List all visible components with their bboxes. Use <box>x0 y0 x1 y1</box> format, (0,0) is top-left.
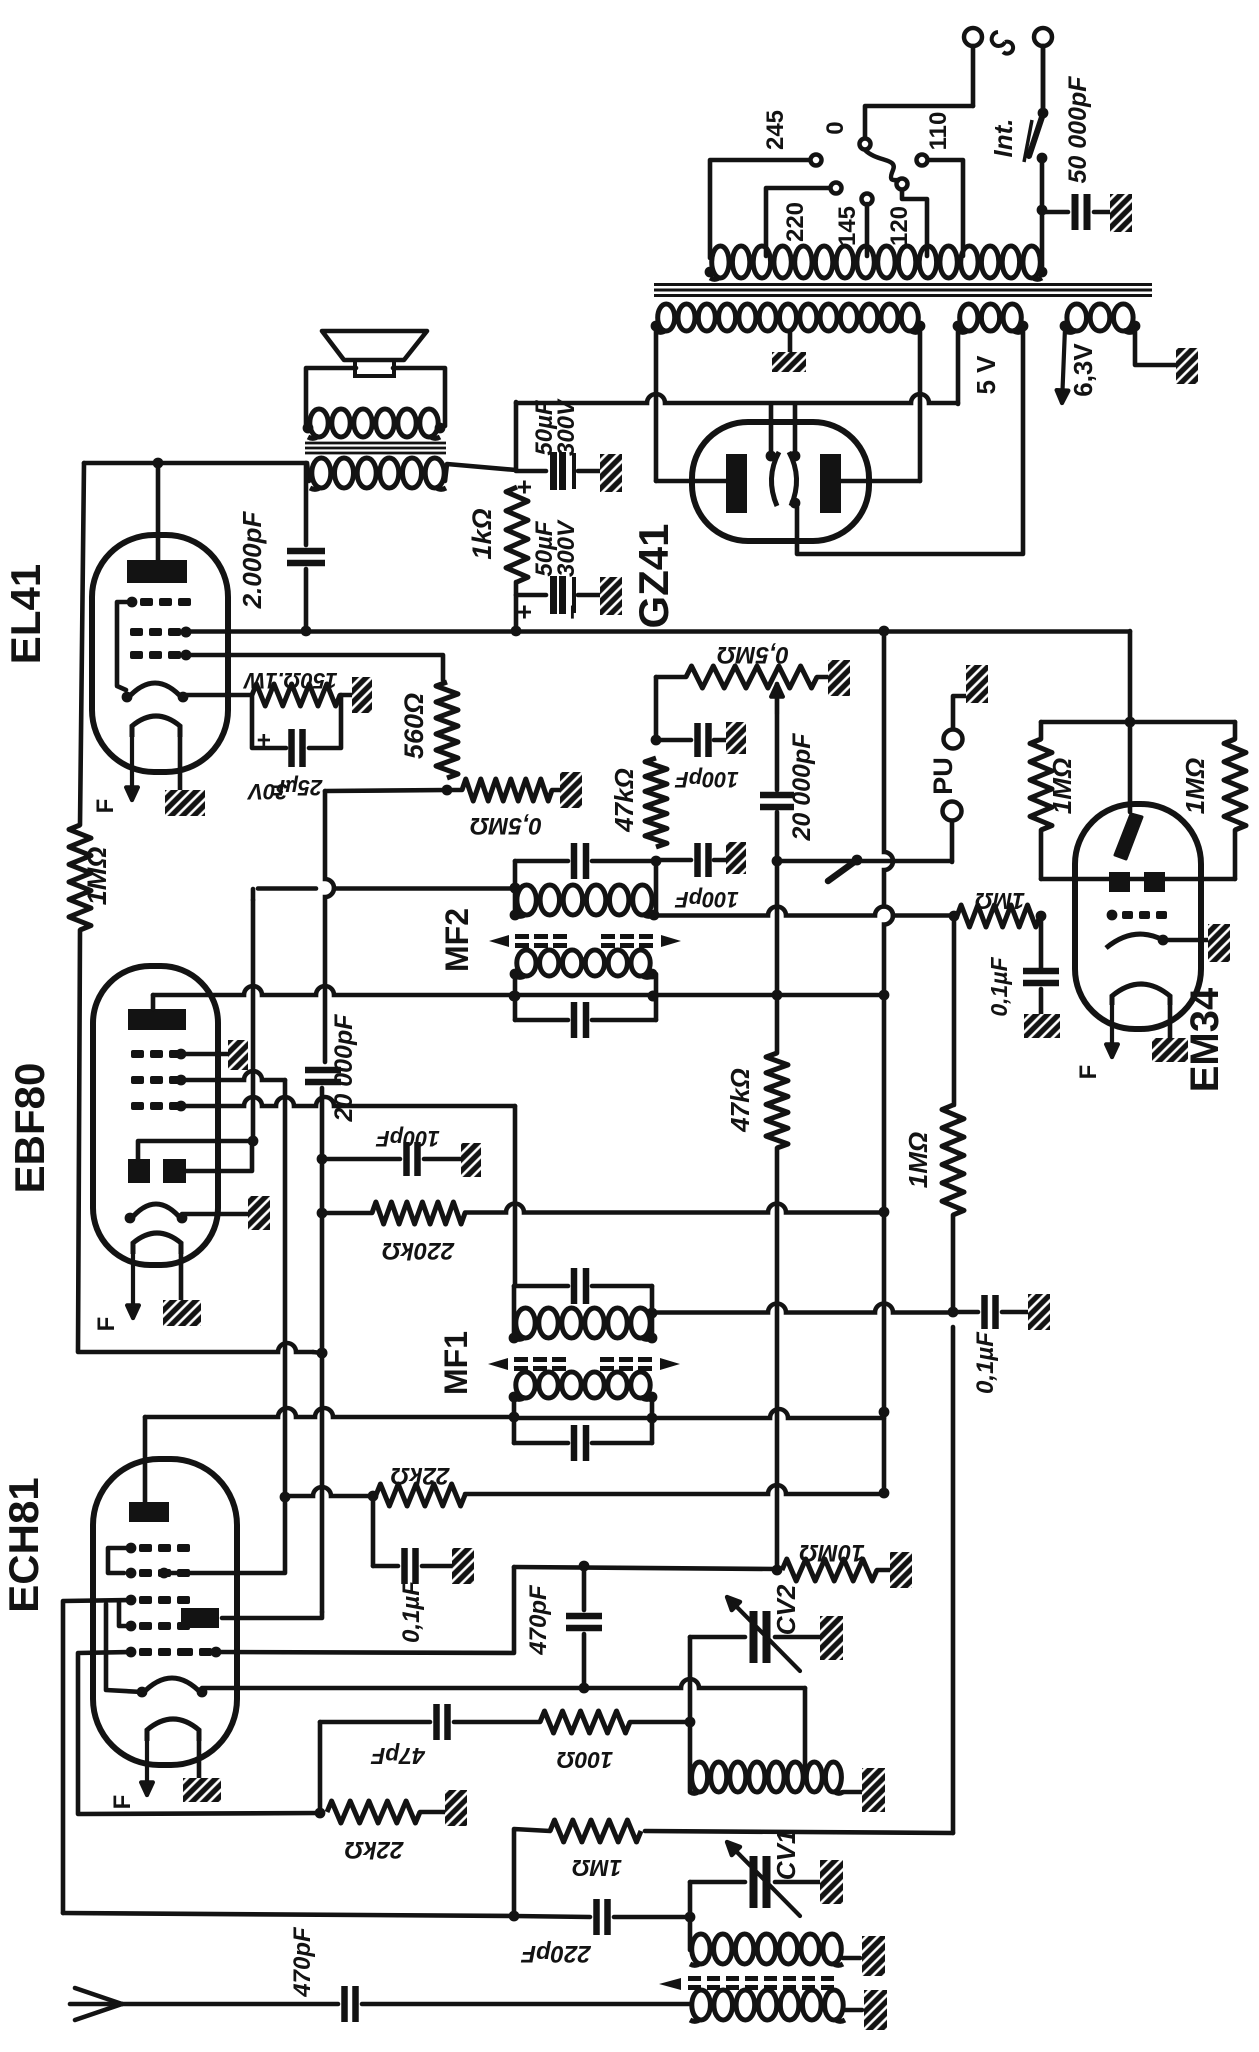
wire coupling bus x322 <box>325 791 334 1062</box>
svg-text:PU: PU <box>928 757 958 795</box>
MF1 primary winding <box>516 1308 535 1338</box>
svg-text:245: 245 <box>762 110 789 150</box>
MF1 verticals <box>512 1286 517 1338</box>
capacitor 0.1uF screen bypass <box>371 1496 376 1566</box>
antenna <box>75 1988 122 2004</box>
svg-text:220kΩ: 220kΩ <box>382 1237 455 1264</box>
wire MF1 feed <box>513 1106 518 1286</box>
svg-text:F: F <box>92 799 119 814</box>
voltage selector post 110 <box>917 155 928 166</box>
svg-text:30V: 30V <box>246 779 287 804</box>
wire primary right to switch <box>1040 162 1045 272</box>
HV center tap to ground <box>788 332 793 352</box>
svg-text:100Ω: 100Ω <box>557 1747 613 1773</box>
IF transformer MF2 top cap <box>515 859 568 864</box>
svg-text:CV2: CV2 <box>771 1584 801 1635</box>
svg-text:20 000pF: 20 000pF <box>788 733 816 842</box>
wire coupling node to bus <box>325 790 447 791</box>
resistor 1MOhm osc <box>550 1820 641 1842</box>
svg-text:145: 145 <box>834 206 861 246</box>
wire 5V right to filament center <box>797 328 1023 554</box>
svg-text:110: 110 <box>925 112 952 151</box>
svg-text:Int.: Int. <box>988 119 1018 158</box>
svg-text:0,1µF: 0,1µF <box>972 1331 999 1394</box>
wire AVC line MF1 to AF node <box>652 1304 953 1313</box>
EL41 grid g3 row <box>127 597 138 608</box>
svg-text:1MΩ: 1MΩ <box>975 888 1025 914</box>
svg-text:47pF: 47pF <box>370 1743 426 1769</box>
capacitor 0.1uF AF <box>953 1310 978 1315</box>
wire switch node down <box>775 861 780 995</box>
EL41 grid g1 row <box>130 651 143 659</box>
capacitor 220pF <box>514 1916 590 1917</box>
wire triode grid network <box>216 1567 514 1653</box>
ECH81 oscillator grid row <box>126 1647 137 1658</box>
wire ECH81 anode to MF1 <box>143 1417 148 1502</box>
svg-text:−: − <box>557 604 587 619</box>
mains terminal B <box>1034 28 1052 46</box>
antenna coil core <box>659 1978 681 1990</box>
svg-text:1MΩ: 1MΩ <box>1180 758 1210 814</box>
EM34 deflection flag <box>1128 722 1133 812</box>
svg-text:10MΩ: 10MΩ <box>799 1539 865 1566</box>
svg-text:300V: 300V <box>553 519 580 577</box>
5V filament winding <box>960 304 978 331</box>
svg-text:150Ω.1W: 150Ω.1W <box>242 668 337 693</box>
svg-text:220pF: 220pF <box>520 1940 592 1967</box>
svg-text:6,3V: 6,3V <box>1068 343 1098 397</box>
voltage selector post 145 <box>862 194 873 205</box>
variable capacitor CV1 <box>690 1880 745 1885</box>
transformer primary winding <box>712 246 729 278</box>
oscillator coil <box>692 1762 708 1792</box>
resistor 1MOhm EM34 left <box>1030 739 1052 830</box>
tube EM34 <box>1075 804 1201 1029</box>
svg-text:F: F <box>1075 1065 1102 1080</box>
MF2 primary winding <box>517 885 536 915</box>
svg-text:22kΩ: 22kΩ <box>344 1836 404 1863</box>
EM34 grid row <box>1107 910 1118 921</box>
output transformer primary winding <box>312 458 331 488</box>
mains terminal A <box>964 28 982 46</box>
tube EL41 <box>92 535 228 772</box>
resistor 22kOhm osc grid <box>327 1801 420 1823</box>
EL41 filament <box>132 716 180 737</box>
EM34 target resistors top rail <box>1041 720 1235 725</box>
svg-text:0,5MΩ: 0,5MΩ <box>470 812 542 839</box>
resistor 1MOhm feedback <box>80 463 84 825</box>
capacitor 470pF antenna <box>341 1986 348 2022</box>
capacitor 20000pF coupling <box>305 1067 341 1074</box>
svg-text:MF2: MF2 <box>439 908 475 972</box>
EM34 cathode <box>1106 934 1163 948</box>
svg-text:220: 220 <box>782 202 809 242</box>
resistor 47kOhm IF feed <box>645 758 667 847</box>
EBF80 grid g1 row <box>131 1102 144 1110</box>
ECH81 grid g1 hexode row <box>126 1595 137 1606</box>
MF2 tuning core <box>489 935 509 947</box>
svg-text:0,1µF: 0,1µF <box>986 956 1012 1016</box>
EBF80 filament <box>133 1233 181 1254</box>
EBF80 plate line to MF2 <box>151 995 156 1009</box>
EBF80 grid g2 row <box>131 1076 144 1084</box>
svg-text:EL41: EL41 <box>2 564 49 664</box>
wire B+ to EM34 target <box>1128 631 1133 722</box>
svg-text:560Ω: 560Ω <box>399 693 429 759</box>
resistor 100 Ohm <box>540 1711 630 1733</box>
svg-text:F: F <box>109 1795 136 1810</box>
svg-text:MF1: MF1 <box>438 1331 474 1395</box>
MF2 left vertical <box>513 861 518 915</box>
capacitor 470pF osc grid <box>566 1613 602 1620</box>
svg-text:1MΩ: 1MΩ <box>1047 758 1077 814</box>
B+ filament line <box>516 394 958 403</box>
EM34 anode line <box>1039 830 1044 879</box>
filter cap 50uF 300V upper <box>516 469 546 474</box>
svg-text:0: 0 <box>822 121 849 134</box>
variable capacitor CV2 <box>690 1635 745 1640</box>
output transformer secondary frame <box>306 368 356 428</box>
capacitor 100pF lower <box>656 858 691 863</box>
tube ECH81 <box>93 1459 237 1765</box>
ECH81 filament <box>147 1719 199 1741</box>
svg-text:47kΩ: 47kΩ <box>725 1068 755 1133</box>
svg-text:300V: 300V <box>553 398 580 456</box>
ECH81 cathode <box>142 1678 202 1694</box>
output transformer secondary winding <box>310 409 328 437</box>
PU jack <box>950 822 955 862</box>
svg-text:GZ41: GZ41 <box>630 523 677 628</box>
wire feedback bus down <box>78 930 80 1351</box>
resistor 22kOhm screen <box>376 1484 465 1506</box>
MF1 bottom cap <box>512 1397 517 1443</box>
svg-text:0,5MΩ: 0,5MΩ <box>717 641 789 668</box>
svg-text:EBF80: EBF80 <box>6 1063 53 1194</box>
svg-text:5 V: 5 V <box>971 355 1001 395</box>
resistor 47kOhm screen <box>775 995 780 1053</box>
wire HV left to GZ41 left anode <box>654 324 659 481</box>
svg-text:47kΩ: 47kΩ <box>609 768 639 833</box>
svg-text:1MΩ: 1MΩ <box>82 847 112 906</box>
wire primary right to filter node <box>445 464 516 481</box>
voltage selector post 0 <box>860 139 871 150</box>
transformer core <box>654 283 1152 286</box>
mains fuse squiggle <box>992 32 1013 54</box>
switch radio PU <box>777 859 852 864</box>
output transformer core <box>305 442 446 445</box>
MF1 secondary winding <box>516 1372 535 1398</box>
resistor 220kOhm <box>322 1211 372 1216</box>
rectifier GZ41 <box>692 422 869 541</box>
wire screen line <box>290 1487 372 1496</box>
capacitor 50000pF line cap <box>1042 210 1068 215</box>
EM34 filament <box>1112 984 1170 1005</box>
capacitor 25uF 30V cathode bypass <box>252 695 286 748</box>
ECH81 grid triode bracket <box>126 1621 137 1632</box>
capacitor 20000pF switch <box>775 684 780 790</box>
loudspeaker <box>322 331 427 360</box>
6.3V heater winding <box>1067 304 1087 331</box>
B+ screen rail <box>186 629 1130 634</box>
svg-text:470pF: 470pF <box>289 1926 316 1998</box>
svg-text:ECH81: ECH81 <box>0 1477 47 1612</box>
EBF80 cathode <box>130 1204 182 1220</box>
capacitor 47pF <box>320 1720 430 1725</box>
wire detector line to diode bus <box>251 889 256 900</box>
resistor 1kOhm filter <box>506 487 528 582</box>
wire AF coupling line <box>78 1343 313 1352</box>
svg-text:100pF: 100pF <box>376 1126 440 1151</box>
svg-text:+: + <box>509 604 539 619</box>
EM34 anode squares <box>1109 872 1130 892</box>
6.3V right to ground <box>1135 328 1176 365</box>
EBF80 diode plates <box>128 1159 150 1183</box>
selector flexible link <box>865 150 900 180</box>
wire CV2 to osc coil <box>688 1637 693 1792</box>
resistor 560 Ohm screen feed <box>436 682 458 778</box>
resistor 1MOhm EM34 grid <box>957 905 1040 927</box>
wire bus 777 down <box>775 1148 780 1570</box>
filter node wire <box>514 402 519 470</box>
EBF80 anode <box>128 1009 186 1030</box>
antenna secondary coil <box>692 1934 710 1964</box>
wire g1 to 560 ohm <box>186 655 443 680</box>
svg-text:0,1µF: 0,1µF <box>398 1580 425 1643</box>
ECH81 triode anode <box>181 1608 219 1628</box>
wire B+ IF bus <box>884 632 893 995</box>
svg-text:EM34: EM34 <box>1183 987 1227 1092</box>
voltage selector post 120 <box>897 179 908 190</box>
svg-text:470pF: 470pF <box>525 1584 552 1656</box>
wire CV1 to antenna coil <box>688 1882 693 1950</box>
EBF80 grid g3 row <box>131 1050 144 1058</box>
svg-text:50 000pF: 50 000pF <box>1064 76 1092 184</box>
svg-text:CV1: CV1 <box>771 1830 801 1881</box>
wire primary left to plate line <box>84 463 309 481</box>
MF1 tuning core <box>488 1358 508 1370</box>
switch Int. contact and blade <box>1037 153 1048 164</box>
antenna primary coil <box>692 1990 711 2020</box>
capacitor 100pF upper <box>656 738 691 743</box>
svg-text:100pF: 100pF <box>675 887 739 912</box>
ECH81 hexode anode <box>129 1502 169 1522</box>
resistor 1MOhm EM34 right <box>1224 739 1246 830</box>
capacitor 2000pF <box>304 463 309 545</box>
svg-text:F: F <box>93 1317 120 1332</box>
resistor 0.5MOhm grid leak EL41 <box>447 788 462 793</box>
voltage selector post 245 <box>811 155 822 166</box>
wire cathode to oscillator tap <box>202 1679 805 1688</box>
filter cap 50uF 300V lower <box>516 593 546 598</box>
wire oscillator feedback down <box>951 1327 956 1833</box>
EL41 anode <box>127 560 187 583</box>
wire 47pF branch <box>318 1722 323 1813</box>
svg-text:100pF: 100pF <box>675 767 739 792</box>
svg-text:1MΩ: 1MΩ <box>572 1855 622 1881</box>
wire screen bus x285 <box>283 1080 288 1497</box>
AVC arrow tap <box>775 684 779 714</box>
wire HV right to GZ41 right anode <box>918 324 923 481</box>
svg-text:2.000pF: 2.000pF <box>237 510 267 609</box>
resistor 10MOhm osc grid leak <box>782 1559 877 1581</box>
EL41 grid g2 row <box>130 628 143 636</box>
EL41 cathode <box>127 683 183 699</box>
resistor 150 Ohm 1W cathode <box>252 684 340 706</box>
MF2 secondary winding <box>517 950 536 976</box>
wire EM34 grid line <box>654 907 957 916</box>
ECH81 grid rows g2 g4 <box>126 1543 137 1554</box>
wire to ECH81 triode anode <box>222 1612 322 1618</box>
HV secondary winding <box>658 304 675 331</box>
6.3V left arrow lead <box>1062 328 1065 403</box>
svg-text:1MΩ: 1MΩ <box>903 1132 933 1188</box>
voltage selector post 220 <box>831 183 842 194</box>
capacitor 0.1uF EM34 grid <box>1039 916 1044 968</box>
svg-text:+: + <box>251 733 278 747</box>
svg-text:1kΩ: 1kΩ <box>467 508 497 559</box>
IF transformer MF1 top cap <box>514 1284 568 1289</box>
tube EBF80 <box>93 966 218 1265</box>
resistor 0.5MOhm AVC <box>656 675 686 680</box>
resistor 1MOhm AF <box>942 1105 964 1215</box>
EL41 plate wire <box>156 463 161 562</box>
wire mains A to tap selector 0 post <box>865 106 973 138</box>
svg-text:22kΩ: 22kΩ <box>390 1462 450 1489</box>
capacitor 100pF EBF80 grid <box>322 1157 400 1162</box>
MF2 bottom cap <box>513 974 518 1020</box>
wire AF detector bus <box>952 916 957 1105</box>
svg-text:120: 120 <box>886 206 913 246</box>
wire osc grid tank line <box>63 1913 514 1916</box>
wire AVC node bus <box>654 677 659 740</box>
